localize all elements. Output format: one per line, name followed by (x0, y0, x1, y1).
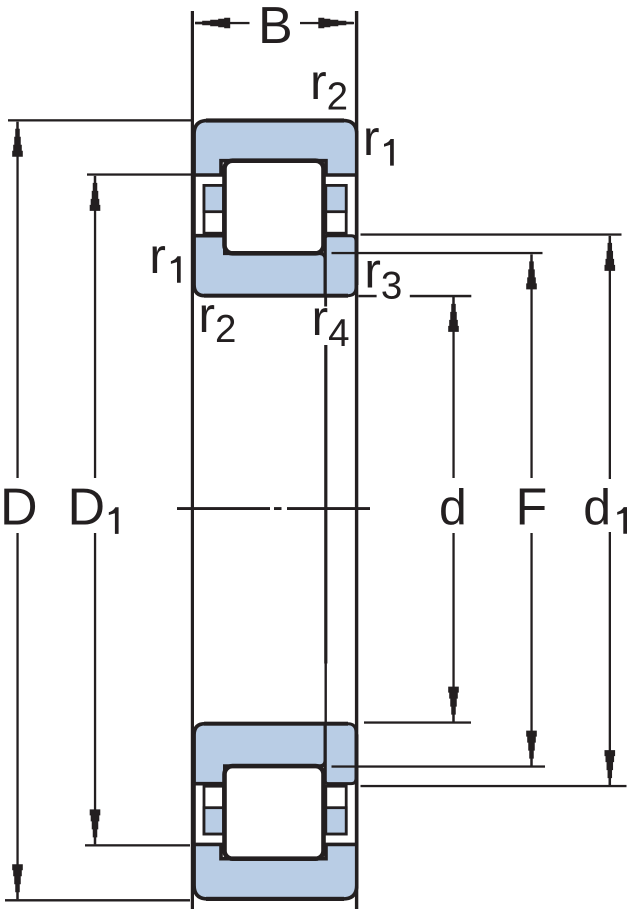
wire: bore edge (lower section) (204, 722, 348, 726)
cage pocket right (lower section) (326, 786, 346, 834)
arrowhead F top (526, 254, 537, 289)
loose thrust flange ring (lower section) (325, 724, 356, 784)
outer ring (upper section) (194, 121, 357, 176)
svg-text:D: D (0, 479, 38, 537)
cage bar left (upper section) (204, 185, 224, 211)
arrowhead d1 bottom (605, 750, 616, 785)
arrowhead B left (195, 18, 230, 29)
wire: d dimension line lower segment (452, 533, 454, 689)
wire: section side face left (upper section) (192, 131, 196, 285)
arrowhead F bottom (526, 731, 537, 766)
wire: dimension B line right segment (300, 22, 354, 24)
centre axis dash (287, 507, 370, 510)
arrowhead d top (448, 297, 459, 332)
wire: F dimension line upper segment (530, 287, 532, 478)
wire: F top extension line (332, 252, 543, 254)
label r1 (inner ring chamfer, left) (149, 228, 180, 284)
cage bar left (lower section) (204, 808, 224, 834)
label r1 (outer ring chamfer, right) (363, 110, 394, 166)
svg-text:D: D (68, 479, 106, 537)
centre axis dash (177, 507, 270, 510)
wire: r4 joint line (inner ring / loose flange), upper part (324, 345, 327, 664)
outer ring (lower section) (194, 844, 357, 899)
inner ring with integral flange (lower section) (194, 724, 325, 784)
wire: F dimension line lower segment (530, 533, 532, 732)
arrowhead B right (318, 18, 353, 29)
cage pocket left (lower section) (204, 786, 224, 834)
cage bar right (upper section) (326, 185, 346, 211)
roller (upper section) (225, 161, 324, 254)
wire: right side-face extension line (full height) (355, 11, 358, 909)
arrowhead D bottom (12, 864, 23, 899)
wire: d top extension line segment under r3 (359, 295, 377, 298)
svg-text:d: d (439, 480, 467, 536)
cage pocket right (upper section) (326, 185, 346, 233)
arrowhead D1 top (90, 176, 101, 211)
wire: D dimension line upper segment (16, 150, 18, 478)
wire: d1 dimension line lower segment (609, 532, 611, 786)
wire: d1 dimension line upper segment (609, 269, 611, 479)
wire: D1 bottom extension line (85, 844, 190, 846)
wire: dimension B line left segment (195, 22, 250, 24)
arrowhead d bottom (448, 687, 459, 722)
wire: bore edge (upper section) (204, 294, 348, 298)
wire: D1 dimension line lower segment (94, 533, 96, 812)
wire: D1 top extension line (87, 173, 194, 175)
wire: d1 bottom extension line (361, 785, 627, 787)
arrowhead d1 top (605, 236, 616, 271)
svg-text:r: r (363, 110, 380, 166)
wire: left side-face extension line (full height) (191, 11, 194, 909)
wire: section side face right (upper section) (355, 131, 359, 285)
wire: d bottom extension line (364, 721, 471, 723)
arrowhead D1 bottom (90, 809, 101, 844)
cage pocket left (upper section) (204, 185, 224, 233)
loose thrust flange ring (upper section) (325, 236, 356, 296)
roller (lower section) (225, 766, 324, 859)
svg-text:r: r (149, 228, 166, 284)
wire: d dimension line upper segment (452, 330, 454, 478)
wire: d1 top extension line (361, 233, 622, 235)
cage bar right (lower section) (326, 808, 346, 834)
svg-text:F: F (516, 479, 548, 537)
wire: section side face right (lower section) (355, 734, 359, 888)
inner ring with integral flange (upper section) (194, 236, 325, 296)
wire: D bottom extension line (5, 899, 190, 901)
wire: F bottom extension line (332, 765, 546, 767)
wire: outer diameter edge (lower section) (206, 897, 344, 901)
wire: D dimension line lower segment (16, 533, 18, 870)
arrowhead D top (12, 122, 23, 157)
wire: D1 dimension line upper segment (94, 205, 96, 478)
wire: D top extension line (8, 119, 193, 121)
svg-text:B: B (258, 0, 293, 55)
wire: section side face left (lower section) (192, 734, 196, 888)
svg-text:d: d (583, 480, 611, 536)
wire: d top extension line segment (410, 295, 472, 298)
wire: outer diameter edge (upper section) (206, 118, 344, 122)
wire: r4 leader stub at bore (324, 296, 327, 307)
wire: r4 joint line, lower thin part (325, 664, 327, 724)
centre axis dot (274, 507, 282, 510)
